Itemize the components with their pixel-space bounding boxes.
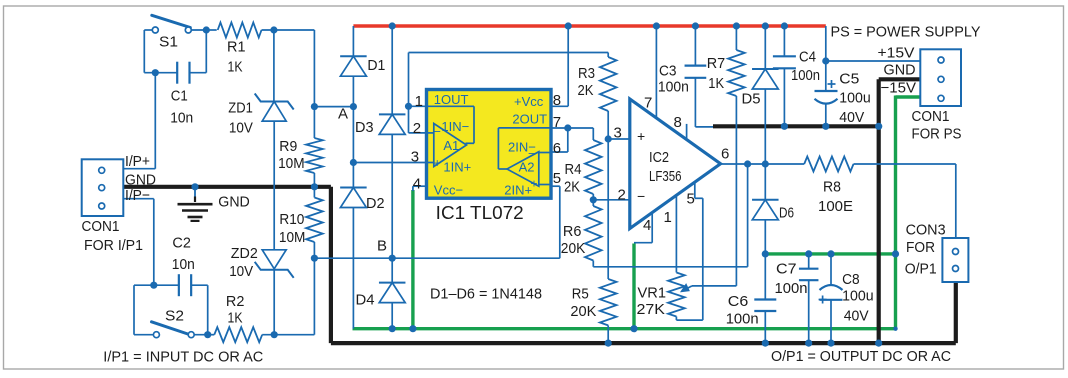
svg-text:GND: GND — [884, 61, 916, 78]
svg-text:1OUT: 1OUT — [434, 92, 469, 107]
svg-text:1IN−: 1IN− — [441, 119, 469, 134]
svg-text:R9: R9 — [279, 138, 297, 155]
svg-text:40V: 40V — [844, 308, 869, 325]
svg-text:100n: 100n — [658, 78, 689, 95]
svg-text:−: − — [637, 188, 645, 204]
svg-text:1: 1 — [415, 93, 423, 110]
svg-text:B: B — [377, 238, 387, 255]
svg-text:PS = POWER SUPPLY: PS = POWER SUPPLY — [831, 24, 981, 41]
svg-text:1K: 1K — [228, 310, 243, 327]
svg-text:C3: C3 — [659, 63, 677, 80]
svg-text:ZD1: ZD1 — [228, 100, 253, 117]
svg-text:20K: 20K — [570, 303, 596, 320]
svg-text:GND: GND — [218, 194, 250, 211]
svg-text:D1: D1 — [367, 57, 385, 74]
svg-text:2IN−: 2IN− — [508, 140, 536, 155]
svg-text:2IN+: 2IN+ — [504, 183, 532, 198]
svg-text:I/P1 = INPUT DC OR AC: I/P1 = INPUT DC OR AC — [103, 349, 263, 366]
svg-text:2OUT: 2OUT — [512, 112, 547, 127]
svg-text:ZD2: ZD2 — [231, 245, 258, 262]
svg-text:Vcc−: Vcc− — [434, 182, 463, 197]
svg-text:C7: C7 — [776, 261, 797, 278]
svg-text:4: 4 — [413, 176, 421, 193]
svg-text:+: + — [434, 156, 441, 170]
svg-text:IC2: IC2 — [649, 149, 669, 166]
svg-text:I/P+: I/P+ — [125, 153, 150, 170]
svg-text:C8: C8 — [842, 271, 860, 288]
svg-text:1IN+: 1IN+ — [443, 159, 471, 174]
svg-text:100n: 100n — [775, 280, 808, 297]
svg-text:10V: 10V — [229, 120, 253, 137]
svg-text:7: 7 — [553, 114, 561, 131]
svg-text:20K: 20K — [561, 240, 586, 257]
svg-text:D1–D6 = 1N4148: D1–D6 = 1N4148 — [430, 286, 542, 303]
svg-text:FOR I/P1: FOR I/P1 — [84, 237, 143, 254]
svg-text:6: 6 — [721, 146, 729, 163]
svg-text:27K: 27K — [637, 301, 666, 318]
svg-text:R7: R7 — [707, 55, 726, 72]
svg-text:100u: 100u — [842, 288, 874, 305]
svg-text:−: − — [434, 125, 441, 139]
svg-text:A2: A2 — [519, 159, 535, 174]
svg-text:−15V: −15V — [881, 80, 917, 97]
svg-text:R3: R3 — [578, 65, 595, 82]
svg-text:D5: D5 — [742, 91, 761, 108]
svg-text:C2: C2 — [172, 234, 191, 251]
svg-text:C4: C4 — [799, 49, 816, 66]
svg-text:R10: R10 — [279, 211, 304, 228]
svg-text:2: 2 — [618, 187, 626, 204]
svg-text:C5: C5 — [839, 71, 859, 88]
svg-text:D3: D3 — [355, 119, 374, 136]
svg-text:A: A — [338, 106, 348, 123]
svg-text:R8: R8 — [823, 179, 841, 196]
svg-text:S1: S1 — [159, 34, 178, 51]
svg-text:5: 5 — [687, 191, 695, 208]
svg-text:+Vcc: +Vcc — [514, 94, 544, 109]
svg-text:LF356: LF356 — [649, 168, 682, 185]
svg-text:1K: 1K — [228, 59, 243, 76]
svg-text:R6: R6 — [563, 223, 582, 240]
svg-text:100u: 100u — [839, 90, 871, 107]
svg-text:D4: D4 — [356, 292, 375, 309]
svg-text:+: + — [637, 128, 645, 144]
svg-text:10n: 10n — [172, 256, 195, 273]
svg-text:2K: 2K — [564, 179, 580, 196]
svg-text:CON3: CON3 — [906, 222, 946, 239]
svg-text:10V: 10V — [229, 263, 253, 280]
svg-text:100n: 100n — [791, 67, 820, 84]
svg-text:O/P1 = OUTPUT DC OR AC: O/P1 = OUTPUT DC OR AC — [771, 348, 951, 365]
svg-text:40V: 40V — [839, 109, 864, 126]
svg-text:2: 2 — [413, 120, 421, 137]
svg-text:5: 5 — [553, 170, 561, 187]
svg-text:10n: 10n — [170, 110, 193, 127]
svg-text:VR1: VR1 — [638, 285, 667, 302]
svg-text:3: 3 — [411, 149, 419, 166]
svg-text:IC1 TL072: IC1 TL072 — [436, 202, 524, 223]
svg-text:+15V: +15V — [878, 44, 915, 61]
svg-text:10M: 10M — [279, 229, 306, 246]
svg-text:R4: R4 — [565, 161, 582, 178]
svg-text:100E: 100E — [818, 198, 853, 215]
svg-text:D6: D6 — [779, 205, 794, 222]
svg-text:R1: R1 — [227, 39, 246, 56]
svg-text:3: 3 — [614, 125, 622, 142]
svg-text:10M: 10M — [278, 155, 305, 172]
svg-text:CON1: CON1 — [82, 218, 120, 235]
svg-text:C6: C6 — [728, 293, 749, 310]
svg-text:S2: S2 — [165, 307, 184, 324]
svg-text:D2: D2 — [366, 195, 385, 212]
svg-text:100n: 100n — [726, 311, 759, 328]
svg-text:I/P−: I/P− — [125, 187, 150, 204]
svg-text:FOR: FOR — [906, 239, 935, 256]
svg-text:2K: 2K — [578, 82, 594, 99]
svg-text:R2: R2 — [226, 293, 245, 310]
svg-text:C1: C1 — [171, 87, 188, 104]
svg-text:CON1: CON1 — [912, 108, 950, 125]
svg-text:8: 8 — [553, 92, 561, 109]
svg-text:8: 8 — [674, 114, 682, 131]
svg-text:R5: R5 — [572, 286, 589, 303]
svg-text:4: 4 — [643, 217, 651, 234]
svg-text:A1: A1 — [443, 138, 459, 153]
svg-text:6: 6 — [553, 140, 561, 157]
svg-text:1K: 1K — [708, 75, 724, 92]
svg-text:FOR PS: FOR PS — [912, 125, 962, 142]
svg-text:1: 1 — [664, 209, 672, 226]
svg-text:GND: GND — [125, 171, 156, 188]
svg-text:7: 7 — [644, 95, 652, 112]
svg-text:O/P1: O/P1 — [905, 261, 937, 278]
